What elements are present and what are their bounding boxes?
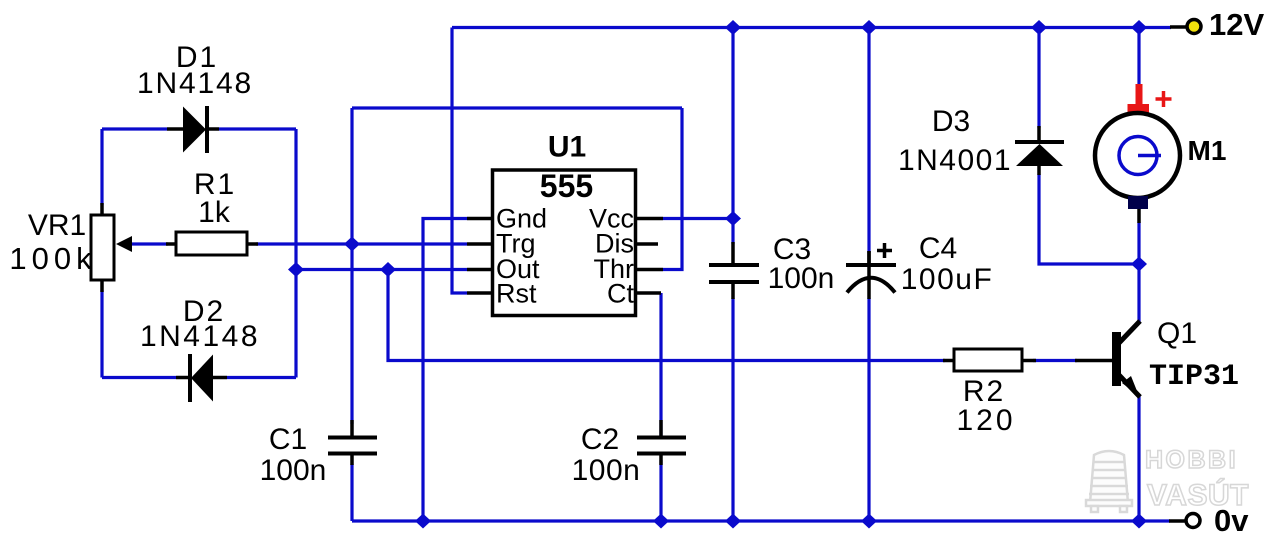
wire vertical x352 loop to Trg junction to C1: [350, 108, 353, 424]
wire C1 bottom to rail: [350, 464, 353, 521]
svg-text:1N4148: 1N4148: [137, 67, 253, 100]
lead Q1 base: [1075, 359, 1112, 363]
transistor Q1: [1112, 321, 1140, 397]
node Out / diodes: [288, 262, 304, 277]
lead R1 right: [247, 242, 258, 246]
svg-text:1N4001: 1N4001: [898, 144, 1012, 177]
lead C1 bottom: [350, 453, 354, 465]
resistor R1: [176, 232, 247, 255]
op IC U1 555 box: [493, 170, 636, 316]
svg-text:Q1: Q1: [1157, 317, 1197, 350]
node top rail / C3: [725, 20, 741, 35]
node M1 bottom / D3 / collector: [1131, 257, 1147, 272]
lead C3 top: [731, 242, 735, 265]
node Vcc / C3: [725, 211, 741, 226]
wire Trg row: [256, 242, 467, 245]
svg-text:Rst: Rst: [496, 279, 537, 309]
lead R1 left: [166, 242, 176, 246]
svg-text:M1: M1: [1188, 135, 1227, 166]
pin stub Thr: [637, 268, 663, 272]
svg-text:C4: C4: [919, 232, 957, 265]
wire C3 vertical bottom: [731, 298, 734, 521]
lead D3 top: [1037, 126, 1041, 142]
lead R2 right: [1022, 359, 1036, 363]
lead C3 bottom: [731, 282, 735, 299]
svg-text:100uF: 100uF: [901, 263, 994, 296]
wire M1 bottom to node: [1137, 222, 1140, 264]
motor M1: [1095, 84, 1180, 209]
lead D1 right: [206, 127, 219, 131]
terminal 0v: [1186, 514, 1200, 528]
lead C2 top: [659, 420, 663, 437]
svg-text:C1: C1: [269, 423, 307, 456]
wire D1 row: [102, 127, 167, 130]
pin labels U1: [496, 204, 634, 309]
lead C4 bottom: [867, 251, 871, 265]
svg-text:555: 555: [540, 168, 593, 204]
capacitor C1: [328, 438, 377, 454]
wire R2 to Q1 base: [1033, 359, 1077, 362]
wire C4 vertical bottom: [867, 298, 870, 521]
lead C1 top: [350, 420, 354, 437]
node top rail / D3: [1031, 20, 1047, 35]
svg-text:100n: 100n: [260, 454, 327, 487]
diode D3: [1015, 142, 1064, 166]
lead M1 bottom: [1137, 208, 1141, 223]
svg-text:12V: 12V: [1209, 7, 1264, 42]
svg-text:VASÚT: VASÚT: [1147, 478, 1249, 512]
capacitor C4 polarized: [846, 265, 896, 293]
lead VR1 bottom: [100, 280, 104, 292]
node Trg junction: [344, 237, 360, 252]
svg-text:100n: 100n: [572, 454, 641, 487]
wire M1 top from rail: [1137, 28, 1140, 89]
wire D3 vertical bottom to node: [1039, 174, 1139, 264]
lead D2 right: [213, 376, 227, 380]
node 0V rail / Q1 emitter: [1131, 514, 1147, 529]
node 0V rail / C2: [653, 514, 669, 529]
svg-text:TIP31: TIP31: [1149, 360, 1239, 394]
node top rail / C4: [861, 20, 877, 35]
node 0V rail / Gnd: [415, 514, 431, 529]
wire Vcc row: [663, 217, 733, 220]
node Out / R2 branch: [380, 262, 396, 277]
svg-text:C2: C2: [581, 423, 619, 456]
wire C2 bottom to rail: [659, 460, 662, 521]
svg-text:VR1: VR1: [28, 209, 86, 242]
wire D1/D2 vertical x296: [294, 129, 297, 378]
diode D2: [190, 354, 213, 402]
lead D1 left: [167, 127, 184, 131]
component leads (black): [102, 27, 1186, 521]
wire Out row: [296, 268, 467, 271]
wire loop rail y107: [352, 106, 682, 109]
lead D2 left: [176, 376, 192, 380]
lead 12V terminal: [1170, 25, 1186, 29]
junction dots (diamonds): [288, 20, 1147, 529]
svg-text:HOBBI: HOBBI: [1145, 446, 1238, 474]
svg-text:Ct: Ct: [607, 279, 634, 309]
diode D1: [183, 106, 207, 153]
terminal 12V: [1187, 20, 1201, 34]
wire C4 vertical top: [867, 28, 870, 254]
wire D2 row: [102, 376, 176, 379]
wire node to Q1 collector: [1137, 264, 1140, 322]
lead C4 top: [867, 251, 871, 299]
capacitor C2: [637, 438, 686, 454]
pin stub Out: [467, 268, 493, 272]
pin stub Dis: [637, 242, 658, 246]
pin stub Trg: [467, 242, 493, 246]
pin stub Gnd: [467, 217, 493, 221]
capacitor C3: [709, 265, 759, 282]
wire bottom 0V rail: [352, 519, 1170, 522]
wire Gnd row: [423, 219, 467, 522]
lead 0v terminal: [1169, 519, 1185, 523]
lead VR1 top: [100, 203, 104, 215]
wire C3 vertical top: [731, 28, 734, 245]
wire Out to R2 row: [388, 270, 945, 361]
wire top 12V rail: [452, 26, 1171, 29]
wire VR1 top lead: [100, 129, 103, 205]
lead C2 bottom: [659, 453, 663, 465]
wire VR1 wiper to R1: [131, 242, 168, 245]
pin stub Ct: [637, 291, 661, 295]
wire vertical x682 to Thr: [663, 108, 682, 270]
svg-text:100n: 100n: [768, 262, 835, 295]
lead D3 bottom: [1037, 166, 1041, 175]
svg-text:1k: 1k: [198, 196, 231, 229]
pin stub Rst: [467, 291, 493, 295]
wire D3 vertical top: [1037, 28, 1040, 129]
pin stub Vcc: [637, 217, 663, 221]
node top rail / M1: [1131, 20, 1147, 35]
svg-text:120: 120: [956, 404, 1015, 437]
watermark locomotive icon: [1086, 451, 1132, 512]
node 0V rail / C4: [861, 514, 877, 529]
wire Ct to C2: [659, 293, 662, 436]
potentiometer VR1: [91, 215, 132, 280]
M1 plus sign (red): [1156, 91, 1172, 107]
C4 plus sign: [877, 243, 892, 258]
svg-text:1N4148: 1N4148: [140, 320, 260, 353]
svg-text:100k: 100k: [9, 241, 96, 276]
wire vertical 12V to Rst: [452, 28, 467, 294]
wire VR1 bottom lead: [100, 290, 103, 378]
lead R2 left: [943, 359, 954, 363]
node 0V rail / C3: [725, 514, 741, 529]
wire Q1 emitter to 0V rail: [1137, 396, 1140, 521]
svg-text:D3: D3: [932, 105, 970, 138]
svg-text:U1: U1: [548, 131, 586, 164]
resistor R2: [954, 349, 1022, 371]
